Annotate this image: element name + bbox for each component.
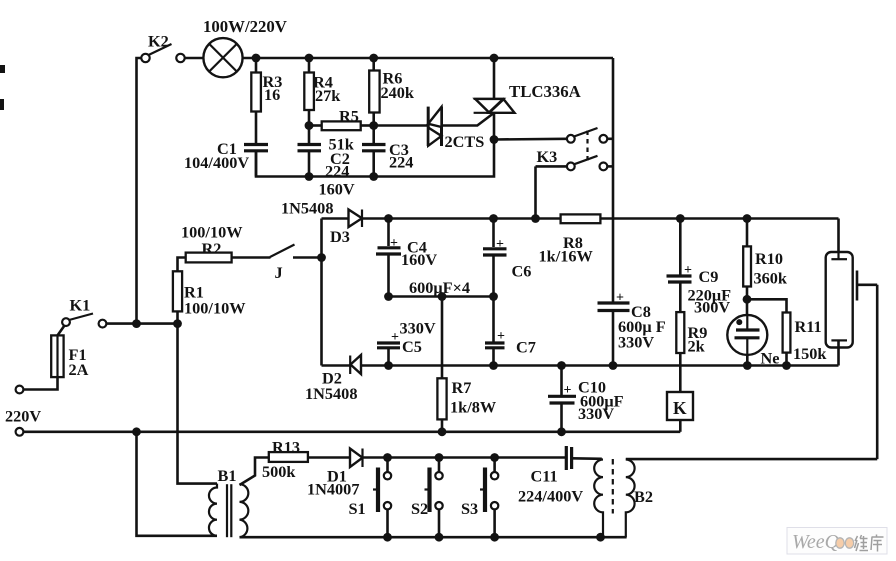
- junction: R10 top: [743, 214, 752, 223]
- svg-text:C5: C5: [402, 337, 422, 356]
- wire: top bus from lamp to right corner: [243, 57, 613, 60]
- svg-text:100W/220V: 100W/220V: [203, 17, 287, 36]
- switch K1: [62, 314, 106, 328]
- wire: K3 lower left lead: [536, 165, 567, 168]
- svg-text:D3: D3: [330, 227, 350, 246]
- junction: C5 bottom: [384, 361, 393, 370]
- junction: Ne bottom: [743, 361, 752, 370]
- wire: R5 left lead: [309, 124, 322, 127]
- wire: K1 down to fuse: [58, 326, 65, 336]
- capacitor C7: [485, 329, 505, 366]
- wire: bottom bus of phase-shift network: [256, 140, 494, 177]
- wire: relay K bottom to neutral bus: [679, 420, 682, 432]
- wire: R13 to D1: [308, 456, 350, 459]
- junction: C10 top: [557, 361, 566, 370]
- wire: triac node to K3 switch 1: [494, 138, 567, 141]
- svg-text:330V: 330V: [618, 333, 654, 352]
- junction: B1 drop on neutral: [132, 427, 141, 436]
- svg-text:K: K: [673, 398, 687, 418]
- svg-text:1N4007: 1N4007: [307, 480, 359, 499]
- svg-text:1N5408: 1N5408: [305, 384, 357, 403]
- resistor R8 (on main bus): [561, 214, 601, 223]
- wire: R10 bottom to node: [746, 287, 749, 300]
- junction: S2 bottom: [435, 533, 444, 542]
- wire: K3 left drop to main bus: [534, 166, 537, 218]
- junction: C10 bottom on neutral: [557, 427, 566, 436]
- junction: B2 primary bottom: [596, 533, 605, 542]
- junction: R6 top: [369, 54, 378, 63]
- svg-text:+: +: [616, 291, 624, 306]
- wire: K3 lower right to right vertical: [607, 165, 613, 168]
- svg-text:2k: 2k: [688, 337, 706, 356]
- wire: node to R11 top: [747, 299, 787, 312]
- junction: triac top: [490, 54, 499, 63]
- resistor R4: [304, 73, 314, 111]
- junction: R3 top: [252, 54, 261, 63]
- capacitor C5: [377, 330, 400, 366]
- wire: K3 upper right to right vertical: [607, 138, 613, 141]
- transformer B1 secondary winding: [240, 484, 249, 537]
- svg-text:2CTS: 2CTS: [445, 132, 485, 151]
- junction: C6 top: [489, 214, 498, 223]
- junction: S2 top: [435, 453, 444, 462]
- junction: left vertical on K1 bus: [132, 319, 141, 328]
- wire: R4 leads: [308, 58, 311, 73]
- svg-text:160V: 160V: [319, 180, 355, 199]
- transformer B1 core: [227, 484, 231, 537]
- svg-text:330V: 330V: [400, 319, 436, 338]
- junction: S3 top: [490, 453, 499, 462]
- wire: R6 leads: [372, 58, 375, 71]
- junction: S1 top: [383, 453, 392, 462]
- svg-text:160V: 160V: [401, 250, 437, 269]
- capacitor C10: [548, 366, 576, 432]
- wire: right vertical from top bus down to C8: [612, 58, 615, 303]
- relay coil K (box): [667, 392, 693, 420]
- resistor R1: [173, 271, 182, 311]
- svg-text:S3: S3: [461, 499, 478, 518]
- junction: C4 top: [384, 214, 393, 223]
- svg-text:B1: B1: [218, 466, 237, 485]
- junction: S1 bottom: [383, 533, 392, 542]
- wire: fuse to live terminal: [23, 377, 58, 389]
- junction: R5 right: [369, 121, 378, 130]
- wire: R5 node to diac: [374, 124, 428, 127]
- svg-text:1k/16W: 1k/16W: [539, 247, 594, 266]
- resistor R5: [322, 121, 361, 130]
- svg-text:B2: B2: [634, 487, 653, 506]
- svg-text:360k: 360k: [754, 269, 788, 288]
- junction: C3 bottom: [369, 172, 378, 181]
- wire: R7 riser crossing lower bus: [441, 297, 444, 379]
- junction: triac bottom / gate bus: [490, 135, 499, 144]
- resistor R10: [743, 246, 751, 286]
- wire: K2 to lamp: [185, 57, 204, 60]
- svg-text:Ne: Ne: [761, 349, 780, 368]
- svg-text:+: +: [390, 236, 398, 251]
- junction: R7 bottom on neutral: [438, 427, 447, 436]
- wire: K1 to R1 bus: [106, 322, 177, 325]
- junction: C8 bottom: [609, 361, 618, 370]
- svg-text:+: +: [564, 383, 572, 398]
- wire: J vertical riser: [320, 219, 323, 366]
- wire: trigger electrode to right vertical: [857, 283, 877, 286]
- wire: left vertical from K2 down to K1 bus: [137, 58, 142, 324]
- junction: C2 bottom: [305, 172, 314, 181]
- svg-text:104/400V: 104/400V: [184, 153, 249, 172]
- diode D2 1N5408: [350, 355, 361, 374]
- svg-text:R13: R13: [272, 438, 300, 457]
- resistor R3: [251, 73, 261, 112]
- wire: right vertical down to B2 secondary: [876, 285, 879, 459]
- svg-text:27k: 27k: [315, 86, 341, 105]
- capacitor C1: [244, 145, 268, 177]
- wire: rectifier lower bus: [322, 364, 839, 367]
- svg-text:R10: R10: [755, 249, 783, 268]
- wire: 600uFx4 bus: [389, 295, 494, 298]
- junction: K3 drop on main bus: [531, 214, 540, 223]
- wire: R7 bottom to neutral bus: [441, 419, 444, 431]
- neon lamp Ne: [727, 299, 767, 365]
- tube trigger electrode: [856, 271, 859, 301]
- junction: R7 top: [438, 292, 447, 301]
- capacitor C11: [566, 446, 571, 470]
- resistor R6: [369, 71, 379, 113]
- capacitor C9: [667, 219, 693, 313]
- scan speck left edge lower: [0, 99, 4, 110]
- svg-text:150k: 150k: [793, 344, 827, 363]
- switch K3 (lower contact): [567, 156, 607, 171]
- svg-text:K2: K2: [148, 32, 169, 51]
- transformer B1 primary winding: [209, 484, 217, 536]
- svg-text:100/10W: 100/10W: [184, 299, 246, 318]
- wire: R9 bottom to relay coil K (crossing lower bus): [679, 353, 682, 392]
- junction: C6-C7 mid: [489, 292, 498, 301]
- relay contact J (arm): [270, 245, 295, 258]
- wire: main middle bus: [322, 217, 839, 220]
- svg-text:+: +: [391, 330, 399, 345]
- wire: B1 secondary top to R13: [240, 458, 269, 486]
- junction: C9 top: [676, 214, 685, 223]
- svg-text:C7: C7: [516, 338, 536, 357]
- transformer B2 secondary winding: [626, 460, 635, 538]
- wire: push-button bus: [363, 456, 567, 459]
- svg-text:330V: 330V: [578, 404, 614, 423]
- svg-text:K1: K1: [70, 296, 91, 315]
- svg-text:+: +: [497, 329, 505, 344]
- switch K2: [141, 44, 184, 62]
- capacitor C3: [362, 145, 386, 177]
- wire: R11 bottom lead: [785, 353, 788, 366]
- terminal: 220V neutral: [16, 428, 24, 436]
- svg-text:300V: 300V: [694, 298, 730, 317]
- fuse F1: [51, 335, 63, 377]
- terminal: 220V live: [16, 386, 24, 394]
- scan speck left edge upper: [0, 65, 5, 73]
- triac TLC336A: [474, 58, 515, 140]
- svg-text:240k: 240k: [381, 83, 415, 102]
- resistor R7: [437, 378, 446, 419]
- svg-text:500k: 500k: [262, 462, 296, 481]
- transformer B2 primary winding: [594, 460, 603, 538]
- resistor R11: [783, 313, 791, 353]
- svg-text:1k/8W: 1k/8W: [450, 398, 497, 417]
- wire: R3 leads: [255, 58, 258, 73]
- wire: R5 right lead: [361, 124, 374, 127]
- capacitor C6: [483, 219, 507, 343]
- capacitor C4: [376, 219, 401, 297]
- wire: J fixed side to riser: [293, 256, 322, 259]
- switch K3 (upper contact): [567, 128, 607, 143]
- junction: J on riser: [317, 253, 326, 262]
- wire: diac to triac gate: [442, 113, 495, 126]
- svg-text:+: +: [496, 237, 504, 252]
- diode D1 1N4007: [350, 449, 363, 468]
- svg-text:R7: R7: [452, 378, 472, 397]
- wire: bottom common bus: [240, 536, 627, 539]
- push switch S2: [425, 458, 443, 538]
- capacitor C8: [598, 291, 630, 366]
- svg-text:C11: C11: [531, 467, 558, 486]
- svg-text:S1: S1: [349, 499, 366, 518]
- svg-text:2A: 2A: [69, 360, 89, 379]
- transformer B2 core (dashed): [612, 459, 614, 514]
- svg-text:TLC336A: TLC336A: [509, 82, 581, 101]
- svg-text:R11: R11: [795, 317, 822, 336]
- svg-text:R5: R5: [339, 107, 359, 126]
- fluorescent tube: [826, 219, 853, 366]
- diode D3 1N5408: [349, 210, 363, 228]
- wire: B1 primary bottom return: [137, 432, 218, 536]
- wire: neutral bus: [23, 430, 680, 433]
- wire: R2 right lead to relay contact J: [232, 256, 271, 259]
- wire: C11 to B2 primary: [572, 457, 602, 460]
- svg-text:J: J: [275, 263, 283, 282]
- wire: R1 bottom down to B1 primary: [178, 311, 218, 483]
- dashed gang link of K3: [586, 131, 588, 165]
- svg-text:WeeQ: WeeQ: [792, 531, 840, 553]
- push switch S3: [480, 458, 498, 538]
- resistor R9: [676, 312, 684, 353]
- junction: S3 bottom: [490, 533, 499, 542]
- junction: R4 top: [305, 54, 314, 63]
- junction: R11 bottom: [782, 361, 791, 370]
- wire: B2 secondary top to right vertical: [626, 458, 877, 461]
- svg-text:K3: K3: [537, 147, 558, 166]
- junction: R5 left: [305, 121, 314, 130]
- junction: C7 bottom: [489, 361, 498, 370]
- resistor R13: [269, 452, 308, 462]
- svg-text:224/400V: 224/400V: [518, 487, 583, 506]
- push switch S1: [373, 458, 391, 538]
- svg-text:+: +: [684, 263, 692, 278]
- junction: R1 bottom on K1 bus: [173, 319, 182, 328]
- watermark WeeQoo: [787, 528, 887, 555]
- svg-text:220V: 220V: [5, 407, 41, 426]
- lamp 100W/220V (circle with X): [203, 38, 242, 77]
- wire: R10 top lead: [746, 219, 749, 247]
- capacitor C2: [298, 145, 322, 177]
- resistor R2: [186, 253, 232, 263]
- diac 2CTS: [428, 107, 441, 146]
- svg-text:1N5408: 1N5408: [281, 199, 333, 218]
- svg-text:C9: C9: [699, 267, 719, 286]
- svg-text:S2: S2: [411, 499, 428, 518]
- junction: R10 / Ne / R11 node: [743, 295, 752, 304]
- svg-text:C6: C6: [512, 262, 532, 281]
- svg-text:224: 224: [389, 153, 413, 172]
- junction: C4-C5 mid: [384, 292, 393, 301]
- wire: R2 left lead down to R1: [178, 258, 186, 272]
- svg-text:16: 16: [264, 85, 280, 104]
